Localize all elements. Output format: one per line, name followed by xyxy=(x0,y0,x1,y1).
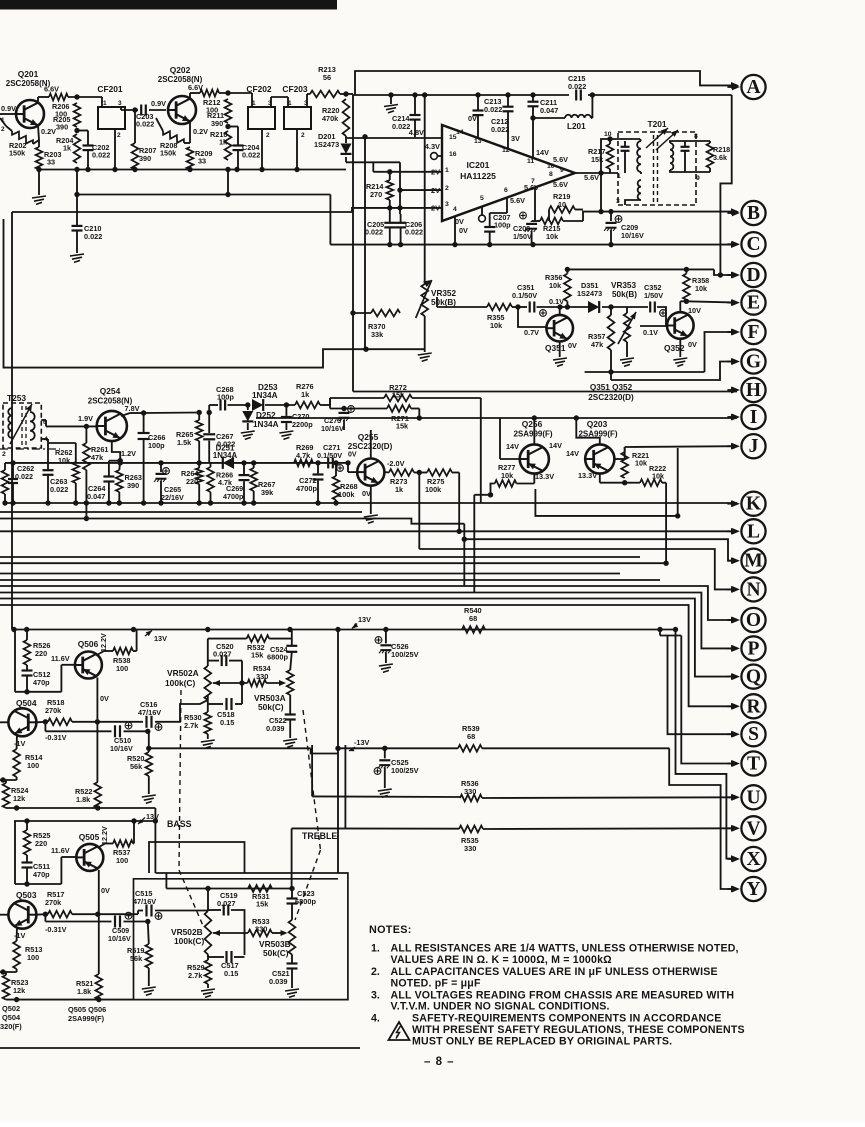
bus wire 521 xyxy=(0,519,464,524)
svg-text:47k: 47k xyxy=(91,453,104,462)
svg-text:D: D xyxy=(746,265,760,286)
wire C271 to Q255 base xyxy=(333,462,348,464)
node R205/R204 xyxy=(74,128,79,133)
T201 core xyxy=(653,135,655,203)
capacitor C525 electrolytic xyxy=(384,748,386,758)
svg-text:Q351: Q351 xyxy=(545,343,566,353)
resistor R520 xyxy=(148,731,150,752)
+13V supply rail xyxy=(14,629,676,631)
svg-text:1: 1 xyxy=(103,100,107,107)
svg-text:11.6V: 11.6V xyxy=(51,846,70,855)
Q351 base wire 0.7V xyxy=(518,307,546,327)
Q255 collector xyxy=(370,430,372,459)
svg-text:4.3V: 4.3V xyxy=(425,142,440,151)
svg-text:P: P xyxy=(748,638,760,659)
capacitor C271 xyxy=(327,457,329,468)
T201 internal capacitor primary xyxy=(624,141,626,146)
resistor R357 xyxy=(610,307,612,315)
svg-text:0.022: 0.022 xyxy=(84,232,102,241)
svg-text:320(F): 320(F) xyxy=(0,1022,22,1031)
svg-text:6: 6 xyxy=(504,187,508,194)
capacitor C273 electrolytic xyxy=(343,409,345,412)
svg-text:10k: 10k xyxy=(695,284,707,293)
svg-text:1.5k: 1.5k xyxy=(177,438,192,447)
resistor R214 xyxy=(386,180,393,200)
svg-text:5.6V: 5.6V xyxy=(510,196,525,205)
svg-text:100k: 100k xyxy=(338,490,355,499)
svg-text:10/16V: 10/16V xyxy=(321,424,344,433)
left edge channel wire xyxy=(4,219,425,368)
wire node down to N bus xyxy=(418,473,420,550)
svg-text:Y: Y xyxy=(746,879,760,900)
terminal R xyxy=(741,694,765,718)
resistor R532 xyxy=(208,638,247,640)
resistor R261 xyxy=(85,426,87,443)
svg-text:5.6V: 5.6V xyxy=(584,173,599,182)
svg-text:14V: 14V xyxy=(566,449,579,458)
T201 internal capacitor secondary xyxy=(684,141,686,146)
svg-text:16: 16 xyxy=(449,151,457,158)
svg-text:4.: 4. xyxy=(371,1013,380,1025)
capacitor C518 xyxy=(207,695,209,704)
svg-text:CF203: CF203 xyxy=(282,84,307,94)
svg-text:Q201: Q201 xyxy=(18,69,39,79)
wire H feed xyxy=(353,391,737,393)
svg-text:10k: 10k xyxy=(501,471,514,480)
IC201 pin3 wire xyxy=(12,208,442,212)
wire apex down to B line xyxy=(600,173,602,212)
transistor Q503 xyxy=(8,901,36,929)
svg-text:N: N xyxy=(746,579,760,600)
svg-text:1.: 1. xyxy=(371,943,380,955)
svg-text:1: 1 xyxy=(445,167,449,174)
svg-text:1k: 1k xyxy=(301,390,310,399)
svg-text:47/16V: 47/16V xyxy=(138,708,161,717)
svg-text:-2.0V: -2.0V xyxy=(387,459,405,468)
svg-text:VR353: VR353 xyxy=(611,281,636,290)
label 13V at BASS xyxy=(138,818,145,825)
terminal B xyxy=(741,201,765,225)
svg-text:3.6k: 3.6k xyxy=(713,153,727,162)
Q203 top lead xyxy=(576,418,600,444)
svg-text:O: O xyxy=(746,610,761,631)
capacitor C266 xyxy=(143,413,145,432)
svg-text:2: 2 xyxy=(301,132,305,139)
svg-text:7.8V: 7.8V xyxy=(125,404,140,413)
svg-text:1/50V: 1/50V xyxy=(513,232,532,241)
svg-text:CF201: CF201 xyxy=(97,84,122,94)
diode D251 xyxy=(223,457,234,469)
resistor R268 xyxy=(333,476,340,500)
lower tone block frame xyxy=(155,872,338,874)
T201 primary winding xyxy=(637,141,641,172)
terminal A xyxy=(741,75,765,99)
T253 windings xyxy=(8,408,12,438)
Q203 base wire to J xyxy=(614,458,624,460)
IC201 pin2 wire xyxy=(399,162,401,214)
transistor Q506 xyxy=(75,652,102,679)
capacitor C269 xyxy=(243,463,245,474)
potentiometer VR352 xyxy=(421,284,428,316)
svg-text:47/16V: 47/16V xyxy=(133,897,156,906)
ground below VR352 xyxy=(424,316,426,352)
resistor R203 xyxy=(38,140,40,147)
node R211/R210 xyxy=(225,124,230,129)
svg-text:VALUES ARE IN Ω. K = 1000Ω,: VALUES ARE IN Ω. K = 1000Ω, M = 1000kΩ xyxy=(391,954,613,966)
terminal I xyxy=(741,405,765,429)
svg-text:10: 10 xyxy=(547,163,555,170)
svg-text:100p: 100p xyxy=(494,221,511,230)
transistor Q254 xyxy=(97,411,127,441)
capacitor C213 xyxy=(477,95,479,110)
capacitor C352 xyxy=(649,302,651,313)
svg-text:Q202: Q202 xyxy=(170,65,191,75)
resistor R533 wiper row xyxy=(248,930,272,937)
svg-text:6800p: 6800p xyxy=(295,897,316,906)
capacitor C264 xyxy=(109,460,120,462)
IC201 pin5 open circle 0V xyxy=(481,207,483,215)
svg-text:U: U xyxy=(746,787,760,808)
svg-text:3: 3 xyxy=(445,201,449,208)
svg-text:0.022: 0.022 xyxy=(405,228,423,237)
capacitor C524 xyxy=(291,630,293,646)
svg-text:V: V xyxy=(746,818,760,839)
vertical join Q254 block xyxy=(85,503,87,519)
capacitor C523 xyxy=(291,889,293,899)
svg-text:ALL RESISTANCES ARE 1/4 WATTS,: ALL RESISTANCES ARE 1/4 WATTS, UNLESS OT… xyxy=(391,943,739,955)
ground below VR353 xyxy=(626,342,628,357)
svg-text:Q504: Q504 xyxy=(16,698,37,708)
capacitor C209 electrolytic xyxy=(610,212,612,221)
resistor R213 xyxy=(310,91,340,98)
svg-text:CF202: CF202 xyxy=(246,84,271,94)
svg-text:2200p: 2200p xyxy=(292,420,313,429)
svg-text:Q: Q xyxy=(746,667,761,688)
svg-text:330: 330 xyxy=(255,925,267,934)
terminal O xyxy=(741,608,765,632)
svg-text:10V: 10V xyxy=(688,306,701,315)
svg-text:100: 100 xyxy=(27,761,39,770)
terminal K xyxy=(741,492,765,516)
capacitor C202 xyxy=(77,130,88,132)
svg-text:A: A xyxy=(746,77,760,98)
bottom bus CH-B xyxy=(6,999,134,1001)
svg-text:9: 9 xyxy=(560,167,564,174)
bottom bus CH-A xyxy=(6,807,155,809)
svg-text:15k: 15k xyxy=(392,391,405,400)
svg-text:0V: 0V xyxy=(568,341,577,350)
node top rail xyxy=(388,92,393,97)
svg-text:G: G xyxy=(746,352,761,373)
IC201 pin11 stub xyxy=(532,118,534,158)
resistor R275 xyxy=(427,469,452,476)
svg-text:3: 3 xyxy=(616,198,620,205)
svg-text:13V: 13V xyxy=(154,634,167,643)
capacitor C215 xyxy=(575,90,577,101)
T201 secondary winding xyxy=(670,143,673,170)
resistor R220 xyxy=(343,99,350,136)
warning triangle xyxy=(389,1022,410,1040)
svg-text:SAFETY-REQUIREMENTS COMPONENT: SAFETY-REQUIREMENTS COMPONENTS IN ACCORD… xyxy=(412,1013,721,1025)
resistor R518 xyxy=(48,718,72,725)
left border vertical xyxy=(11,212,13,630)
svg-text:MUST ONLY BE REPLACED BY ORIGI: MUST ONLY BE REPLACED BY ORIGINAL PARTS. xyxy=(412,1036,672,1048)
resistor R263 xyxy=(118,461,121,470)
transistor Q202 xyxy=(168,96,196,124)
wire R210 column to bus2 xyxy=(227,170,229,195)
capacitor C205 xyxy=(389,208,391,223)
diode D253 xyxy=(252,399,263,411)
wire J bias vertical xyxy=(677,448,679,516)
svg-text:0.027: 0.027 xyxy=(213,650,232,659)
resistor R272 xyxy=(384,395,412,402)
svg-text:HA11225: HA11225 xyxy=(460,171,496,181)
resistor R514 xyxy=(13,749,20,777)
ground bus wire y=169.5 xyxy=(39,169,346,171)
bus wire N xyxy=(419,549,737,589)
Q256 base wire xyxy=(500,458,520,460)
svg-text:Q505: Q505 xyxy=(79,832,100,842)
svg-text:33: 33 xyxy=(198,157,206,166)
svg-text:50k(B): 50k(B) xyxy=(431,298,456,307)
svg-text:220: 220 xyxy=(186,477,198,486)
capacitor C263 xyxy=(47,443,49,470)
wire R513 to R523 xyxy=(16,969,18,972)
diode D351 xyxy=(588,301,599,313)
wire G feed xyxy=(611,362,737,381)
svg-text:8: 8 xyxy=(549,171,553,178)
wire S feed xyxy=(668,636,737,735)
svg-text:13: 13 xyxy=(474,138,482,145)
svg-text:4: 4 xyxy=(453,206,457,213)
capacitor C509 row xyxy=(44,914,46,921)
svg-text:47k: 47k xyxy=(591,340,604,349)
svg-text:1N34A: 1N34A xyxy=(252,391,278,400)
svg-text:14: 14 xyxy=(456,129,464,136)
svg-text:330: 330 xyxy=(256,672,268,681)
page top registration bar xyxy=(0,0,337,10)
resistor R526 xyxy=(26,630,28,641)
svg-text:Q506: Q506 xyxy=(78,639,99,649)
wire R357 bottom run xyxy=(610,350,612,380)
wire bus2 to C bus xyxy=(77,194,330,196)
svg-text:TREBLE: TREBLE xyxy=(302,831,337,841)
svg-text:Q203: Q203 xyxy=(587,419,608,429)
wire T201 primary top xyxy=(601,139,640,173)
wire R272 down to bus xyxy=(480,398,482,503)
label 13V left xyxy=(145,631,152,637)
terminal H xyxy=(741,378,765,402)
svg-text:15k: 15k xyxy=(256,900,269,909)
transistor Q203 xyxy=(585,444,614,473)
svg-text:15k: 15k xyxy=(591,155,604,164)
svg-text:1S2473: 1S2473 xyxy=(577,289,602,298)
svg-text:100k(C): 100k(C) xyxy=(174,936,204,946)
svg-text:220: 220 xyxy=(35,649,47,658)
capacitor C512 xyxy=(26,665,28,670)
svg-text:-0.31V: -0.31V xyxy=(45,925,67,934)
bus wire K xyxy=(5,502,737,504)
resistor R517 xyxy=(48,911,72,918)
svg-text:0V: 0V xyxy=(459,226,468,235)
svg-text:0.022: 0.022 xyxy=(568,82,586,91)
resistor R218 xyxy=(709,141,711,143)
svg-text:0.027: 0.027 xyxy=(217,899,236,908)
resistor R276 xyxy=(265,404,295,406)
svg-text:220: 220 xyxy=(35,839,47,848)
svg-text:0.039: 0.039 xyxy=(269,977,288,986)
svg-text:0.1V: 0.1V xyxy=(549,297,564,306)
svg-text:39k: 39k xyxy=(261,488,274,497)
wire CF202 pin2 xyxy=(261,129,263,170)
capacitor C516 on feedback row xyxy=(145,716,147,728)
ceramic filter CF201 xyxy=(98,107,125,129)
wire D201 output row xyxy=(345,157,347,162)
ground stub on top rail xyxy=(390,95,392,104)
resistor R519 xyxy=(148,922,149,945)
wire detector vertical to D xyxy=(720,95,731,275)
resistor R523 xyxy=(3,975,10,1000)
wire R355 to C351 xyxy=(512,306,527,308)
resistor R202 xyxy=(12,131,33,144)
resistor R266 xyxy=(207,467,214,492)
svg-text:-1V: -1V xyxy=(14,739,25,748)
svg-text:H: H xyxy=(746,380,761,401)
svg-text:0V: 0V xyxy=(468,114,477,123)
capacitor C203 xyxy=(121,109,138,111)
treble feed vertical xyxy=(291,828,293,888)
capacitor C511 xyxy=(26,855,28,862)
wire VR352 wiper to R355 xyxy=(437,306,487,308)
bus wire 580 xyxy=(0,579,660,581)
terminal L xyxy=(741,519,765,543)
svg-text:10k: 10k xyxy=(549,281,562,290)
wire CF201 pin2 xyxy=(114,129,116,170)
ceramic filter CF203 xyxy=(284,107,311,129)
diode D252 xyxy=(245,402,250,407)
Q254 emitter 1.2V xyxy=(112,441,120,461)
svg-text:BASS: BASS xyxy=(167,819,192,829)
svg-text:S: S xyxy=(748,724,759,745)
svg-text:-0.31V: -0.31V xyxy=(45,733,67,742)
resistor R524 xyxy=(3,783,10,808)
IC201 pin1 wire xyxy=(372,162,374,172)
chassis dash-dot line xyxy=(0,448,60,450)
svg-text:F: F xyxy=(748,322,760,343)
svg-text:J: J xyxy=(749,436,759,457)
svg-text:4.7k: 4.7k xyxy=(296,451,311,460)
IC201 pin15 wire 4.8V xyxy=(346,137,442,139)
svg-text:Q504: Q504 xyxy=(2,1013,21,1022)
resistor R262 xyxy=(48,442,76,444)
resistor R521 xyxy=(95,974,102,1000)
wire Q202 collector xyxy=(189,93,191,100)
bus wire M xyxy=(462,537,467,542)
svg-text:5.6V: 5.6V xyxy=(553,155,568,164)
node R213 out xyxy=(343,91,348,96)
svg-text:M: M xyxy=(744,551,762,572)
left feed vertical CH-A xyxy=(14,630,16,692)
capacitor C520 xyxy=(207,639,209,666)
svg-text:56k: 56k xyxy=(130,954,143,963)
svg-text:I: I xyxy=(750,407,758,428)
resistor R525 xyxy=(26,821,28,830)
terminal M xyxy=(741,549,765,573)
transistor Q504 xyxy=(8,708,36,736)
apex output wire 5.6V xyxy=(575,172,618,174)
svg-text:1S2473: 1S2473 xyxy=(314,140,339,149)
svg-text:2.7k: 2.7k xyxy=(188,971,203,980)
resistor R209 xyxy=(189,121,191,143)
left boundary wire of IF block xyxy=(352,95,354,392)
svg-text:100p: 100p xyxy=(148,441,165,450)
svg-text:0V: 0V xyxy=(348,452,357,459)
terminal N xyxy=(741,577,765,601)
svg-text:1: 1 xyxy=(617,173,621,180)
svg-text:0.022: 0.022 xyxy=(392,122,410,131)
bottom border xyxy=(0,1047,360,1049)
transformer T201 dashed box xyxy=(618,132,696,205)
dashed gang line left xyxy=(179,690,181,870)
svg-text:Q502: Q502 xyxy=(2,1004,20,1013)
svg-text:6800p: 6800p xyxy=(267,653,288,662)
capacitor C526 electrolytic xyxy=(375,637,382,644)
svg-text:0V: 0V xyxy=(100,694,109,703)
svg-text:L201: L201 xyxy=(567,122,586,131)
svg-text:1.8k: 1.8k xyxy=(77,987,92,996)
svg-text:100k: 100k xyxy=(425,485,442,494)
bus wire 563 xyxy=(0,562,666,564)
svg-text:0.9V: 0.9V xyxy=(151,99,166,108)
svg-text:12k: 12k xyxy=(13,986,26,995)
svg-text:X: X xyxy=(746,849,760,870)
svg-text:K: K xyxy=(746,494,762,515)
svg-text:33: 33 xyxy=(47,158,55,167)
resistor R217 xyxy=(607,144,614,169)
wire Q506 base 11.6V xyxy=(15,691,61,693)
capacitor C522 xyxy=(289,695,291,714)
VR353 wiper wire to Q352 base 0.1V xyxy=(640,325,667,327)
svg-text:0.022: 0.022 xyxy=(136,120,154,129)
svg-text:11.6V: 11.6V xyxy=(51,654,70,663)
terminal J xyxy=(741,434,765,458)
resistor R264 xyxy=(196,468,203,484)
svg-text:2.: 2. xyxy=(371,966,380,978)
svg-text:3: 3 xyxy=(118,100,122,107)
svg-text:C: C xyxy=(746,234,760,255)
svg-text:50k(C): 50k(C) xyxy=(258,702,284,712)
svg-text:10/16V: 10/16V xyxy=(108,934,131,943)
resistor R355 xyxy=(487,304,512,311)
capacitor C521 xyxy=(291,955,293,964)
resistor R522 xyxy=(94,782,101,808)
bus wire R xyxy=(0,605,737,706)
resistor left edge xyxy=(2,470,9,494)
wire C352 to Q352 xyxy=(657,307,666,326)
svg-text:R: R xyxy=(746,696,761,717)
Q506 collector 0V xyxy=(96,678,98,783)
wire feed to VR352 xyxy=(424,95,426,284)
wire Q201 collector node xyxy=(37,97,39,104)
Q352 emitter ground 0V xyxy=(679,339,681,357)
ground below R203 xyxy=(38,170,40,196)
svg-text:0.2V: 0.2V xyxy=(193,127,208,136)
svg-text:T: T xyxy=(747,754,760,775)
svg-text:0.1/50V: 0.1/50V xyxy=(512,291,537,300)
svg-text:9: 9 xyxy=(696,175,700,182)
svg-text:10k: 10k xyxy=(635,459,647,468)
wire J line xyxy=(625,445,737,448)
